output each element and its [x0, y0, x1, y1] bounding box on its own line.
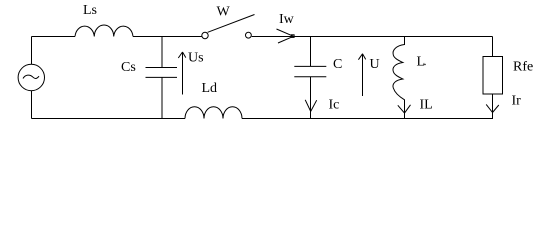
- svg-text:L: L: [417, 54, 426, 69]
- capacitor C: [294, 37, 326, 119]
- svg-text:Cs: Cs: [121, 60, 136, 75]
- svg-text:U: U: [370, 57, 380, 72]
- switch W: [202, 32, 208, 38]
- svg-text:Ic: Ic: [329, 97, 340, 112]
- current arrow Ic: [305, 100, 317, 112]
- current arrow Iw: [277, 29, 294, 43]
- inductor Ls: [75, 25, 133, 36]
- wire left vertical top (corner to source): [31, 37, 33, 65]
- svg-text:Ld: Ld: [202, 81, 218, 96]
- voltage arrow Us: [178, 52, 186, 95]
- wire left vertical bottom (source to bottom rail): [31, 91, 33, 119]
- wire top-left horizontal: [32, 36, 76, 38]
- wire switch to right corner: [252, 36, 493, 38]
- svg-text:IL: IL: [420, 98, 433, 113]
- capacitor Cs: [146, 37, 178, 119]
- wire top middle (Ls to switch): [133, 36, 202, 38]
- resistor Rfe: [483, 57, 503, 95]
- svg-text:Ls: Ls: [83, 3, 97, 18]
- svg-text:Iw: Iw: [279, 12, 295, 27]
- current arrow IL: [398, 105, 411, 113]
- AC source G: [18, 64, 44, 90]
- wire bottom rail right: [242, 118, 493, 120]
- voltage arrow U: [358, 54, 365, 96]
- wire bottom rail left: [32, 118, 186, 120]
- svg-text:Rfe: Rfe: [513, 59, 533, 74]
- inductor L: [393, 37, 405, 119]
- svg-text:W: W: [217, 4, 231, 19]
- wire right vertical bottom: [492, 94, 494, 119]
- inductor Ld: [185, 107, 242, 119]
- svg-text:Ir: Ir: [512, 94, 522, 109]
- current arrow Ir: [486, 104, 499, 112]
- wire right vertical top: [492, 37, 494, 58]
- svg-text:C: C: [333, 57, 342, 72]
- svg-text:Us: Us: [188, 51, 204, 66]
